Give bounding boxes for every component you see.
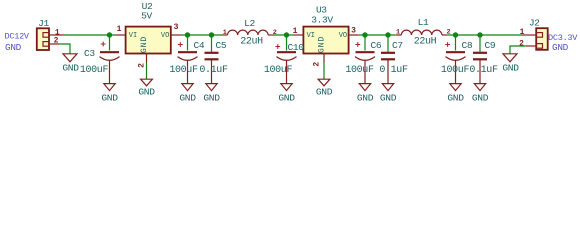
svg-text:GND: GND bbox=[472, 92, 489, 103]
svg-text:GND: GND bbox=[502, 62, 519, 73]
svg-text:2: 2 bbox=[138, 63, 147, 68]
svg-text:1: 1 bbox=[396, 29, 400, 37]
svg-text:GND: GND bbox=[140, 36, 149, 53]
svg-text:GND: GND bbox=[62, 62, 79, 73]
node junction at C6 bbox=[362, 32, 367, 37]
regulator U3 bbox=[303, 27, 348, 54]
svg-text:5V: 5V bbox=[141, 11, 152, 22]
inductor L2 bbox=[222, 30, 274, 35]
svg-text:2: 2 bbox=[313, 62, 322, 67]
svg-text:3: 3 bbox=[351, 27, 356, 36]
svg-text:1: 1 bbox=[293, 27, 298, 36]
svg-text:GND: GND bbox=[203, 92, 220, 103]
svg-text:C8: C8 bbox=[462, 40, 473, 51]
svg-text:1: 1 bbox=[520, 28, 525, 37]
node junction at C5 bbox=[209, 32, 214, 37]
ground symbol C5 bbox=[206, 84, 217, 91]
U2 pin 3 VO bbox=[171, 34, 181, 36]
svg-text:GND: GND bbox=[101, 92, 118, 103]
svg-text:C4: C4 bbox=[194, 40, 205, 51]
ground symbol C6 bbox=[359, 84, 370, 91]
svg-text:100uF: 100uF bbox=[80, 65, 109, 76]
svg-text:GND: GND bbox=[316, 86, 333, 97]
svg-text:22uH: 22uH bbox=[240, 37, 263, 48]
U3 pin 2 bbox=[323, 54, 325, 63]
wire junction to C10 bbox=[286, 35, 288, 51]
wire L1 to J2 bbox=[447, 34, 521, 36]
ground symbol C10 bbox=[281, 84, 292, 91]
svg-text:22uH: 22uH bbox=[414, 37, 437, 48]
wire junction to C9 bbox=[479, 35, 481, 52]
ground symbol J2 bbox=[503, 54, 517, 62]
svg-text:C10: C10 bbox=[288, 42, 305, 53]
ground symbol U2 bbox=[141, 79, 153, 86]
svg-text:VI: VI bbox=[129, 32, 137, 40]
svg-text:GND: GND bbox=[5, 42, 22, 53]
svg-text:C3: C3 bbox=[84, 48, 95, 59]
U3 pin 3 VO bbox=[349, 34, 359, 36]
svg-text:GND: GND bbox=[447, 92, 464, 103]
svg-text:C9: C9 bbox=[485, 40, 496, 51]
svg-text:VO: VO bbox=[339, 32, 347, 40]
capacitor C7 bbox=[381, 53, 395, 84]
svg-text:1: 1 bbox=[223, 29, 227, 37]
node junction at C7 bbox=[385, 32, 390, 37]
svg-text:1: 1 bbox=[117, 25, 122, 34]
J2 pin 1 bbox=[521, 34, 536, 36]
node junction at C3 bbox=[107, 32, 112, 37]
svg-text:C6: C6 bbox=[371, 40, 382, 51]
capacitor C8 polarity plus bbox=[445, 42, 450, 47]
capacitor C10 bbox=[277, 52, 297, 83]
svg-text:GND: GND bbox=[179, 92, 196, 103]
svg-text:GND: GND bbox=[357, 92, 374, 103]
connector J2 bbox=[536, 28, 548, 50]
U2 pin 1 VI bbox=[116, 34, 126, 36]
capacitor C3 polarity plus bbox=[101, 42, 106, 47]
svg-text:VI: VI bbox=[307, 32, 315, 40]
ground symbol C8 bbox=[450, 84, 461, 91]
svg-text:GND: GND bbox=[138, 86, 155, 97]
svg-text:0.1uF: 0.1uF bbox=[379, 65, 408, 76]
wire junction to C7 bbox=[387, 35, 389, 52]
svg-text:L1: L1 bbox=[418, 17, 429, 28]
wire J1 pin1 to U2 VI bbox=[64, 34, 116, 36]
U3 pin 1 VI bbox=[294, 34, 304, 36]
wire junction to C5 bbox=[211, 35, 213, 52]
U2 pin 2 bbox=[146, 54, 148, 63]
capacitor C5 bbox=[205, 53, 219, 84]
ground symbol C3 bbox=[104, 84, 115, 91]
svg-text:GND: GND bbox=[278, 92, 295, 103]
ground symbol J1 bbox=[63, 54, 77, 62]
svg-text:0.1uF: 0.1uF bbox=[199, 65, 228, 76]
node junction at C8 bbox=[453, 32, 458, 37]
capacitor C6 bbox=[355, 52, 375, 83]
wire J2 pin2 to ground bbox=[510, 46, 526, 54]
svg-text:GND: GND bbox=[380, 92, 397, 103]
ground symbol C7 bbox=[382, 84, 393, 91]
wire U2 VO to L2 bbox=[181, 34, 222, 36]
wire L2 to U3 VI bbox=[274, 34, 294, 36]
svg-text:DC12V: DC12V bbox=[5, 32, 30, 42]
capacitor C8 bbox=[446, 52, 466, 83]
svg-text:GND: GND bbox=[552, 42, 569, 53]
wire junction to C8 bbox=[455, 35, 457, 51]
ground symbol C4 bbox=[182, 84, 193, 91]
svg-text:C5: C5 bbox=[216, 40, 227, 51]
svg-text:3: 3 bbox=[174, 23, 179, 32]
svg-text:100uF: 100uF bbox=[345, 65, 374, 76]
node junction at C4 bbox=[185, 32, 190, 37]
svg-text:J1: J1 bbox=[38, 18, 49, 29]
svg-text:0.1uF: 0.1uF bbox=[469, 65, 498, 76]
J1 pin 1 bbox=[49, 34, 64, 36]
svg-text:2: 2 bbox=[54, 36, 59, 45]
wire U3 pin2 to ground bbox=[323, 63, 325, 80]
svg-text:100uF: 100uF bbox=[441, 65, 470, 76]
svg-text:VO: VO bbox=[161, 32, 169, 40]
wire junction to C6 bbox=[364, 35, 366, 51]
ground symbol U3 bbox=[318, 79, 330, 86]
capacitor C4 polarity plus bbox=[178, 42, 183, 47]
ground symbol C9 bbox=[474, 84, 485, 91]
wire J1 pin2 to ground bbox=[59, 44, 70, 54]
wire U2 pin2 to ground bbox=[146, 63, 148, 80]
capacitor C6 polarity plus bbox=[355, 42, 360, 47]
capacitor C3 bbox=[100, 52, 120, 83]
wire U3 VO to L1 bbox=[359, 34, 396, 36]
J1 pin 2 bbox=[49, 43, 59, 45]
node junction at C10 bbox=[284, 32, 289, 37]
svg-text:GND: GND bbox=[318, 36, 327, 53]
svg-text:100uF: 100uF bbox=[264, 65, 293, 76]
node junction at C9 bbox=[477, 32, 482, 37]
capacitor C10 polarity plus bbox=[275, 44, 280, 49]
svg-text:2: 2 bbox=[519, 40, 524, 49]
regulator U2 bbox=[126, 27, 171, 54]
svg-text:3.3V: 3.3V bbox=[311, 15, 333, 26]
capacitor C9 bbox=[473, 53, 487, 84]
J2 pin 2 bbox=[526, 45, 536, 47]
svg-text:L2: L2 bbox=[244, 18, 255, 29]
svg-text:J2: J2 bbox=[529, 18, 540, 29]
inductor L1 bbox=[396, 30, 448, 35]
wire junction to C4 bbox=[187, 35, 189, 51]
svg-text:100uF: 100uF bbox=[169, 65, 198, 76]
wire junction to C3 bbox=[109, 35, 111, 51]
capacitor C4 bbox=[178, 52, 198, 83]
connector J1 bbox=[37, 28, 49, 50]
svg-text:C7: C7 bbox=[392, 40, 403, 51]
